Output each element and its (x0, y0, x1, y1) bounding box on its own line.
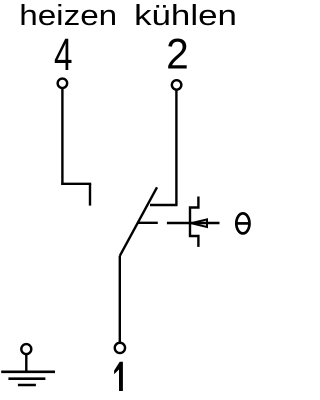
thermal actuator bracket (190, 197, 198, 247)
wire from terminal 4 down (61, 88, 63, 185)
fixed contact heizen (stub down) (89, 184, 91, 206)
wire horizontal to heizen contact (61, 183, 91, 185)
ground terminal circle (21, 344, 31, 354)
actuator arrowhead (191, 219, 207, 227)
terminal circle 4 (58, 79, 68, 89)
ground bar 3 (18, 384, 36, 387)
wire from lever to terminal 1 (119, 256, 121, 343)
terminal circle 1 (115, 343, 125, 353)
ground bar 1 (1, 370, 55, 373)
theta symbol (236, 213, 250, 233)
ground bar 2 (8, 377, 45, 380)
fixed contact kühlen (horizontal) (150, 204, 178, 206)
svg-text:4: 4 (54, 30, 72, 80)
svg-text:heizen: heizen (19, 0, 117, 31)
svg-text:2: 2 (166, 30, 189, 78)
ground stem (25, 354, 27, 372)
lever crossbar tick (137, 222, 158, 224)
svg-text:kühlen: kühlen (134, 0, 237, 31)
actuator link line (167, 222, 220, 224)
switch lever (movable contact) (120, 187, 157, 256)
wire from terminal 2 down (175, 90, 177, 206)
pin label 1 (114, 362, 123, 391)
terminal circle 2 (172, 80, 182, 90)
